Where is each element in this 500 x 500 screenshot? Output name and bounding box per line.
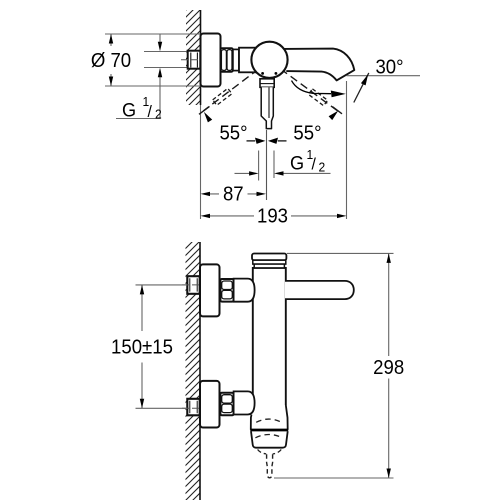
hidden outlet tube (dashed) (267, 454, 273, 478)
center line below lever (266, 130, 268, 200)
svg-text:G: G (122, 99, 136, 121)
valve body (top view) (239, 48, 257, 73)
knob dots (261, 72, 264, 75)
G1/2 extension lines (below lever) (259, 151, 274, 181)
union nut (top view) (221, 48, 233, 72)
svg-text:2: 2 (155, 107, 162, 121)
dimension line G1/2 (pipe width, top left) (116, 34, 161, 119)
spout (top view) (284, 49, 354, 81)
left 55 end segment (199, 106, 210, 114)
svg-text:55°: 55° (293, 123, 321, 145)
faucet body (front view) (253, 268, 286, 405)
arrow left to right ext (274, 171, 284, 175)
svg-text:87: 87 (223, 184, 244, 206)
top G1/2 nipple (front view) (187, 276, 199, 294)
top union nut (front view) (220, 279, 233, 302)
30 deg horizontal reference line (347, 75, 421, 77)
cap collar band (253, 260, 286, 264)
wall hatch (front view) (186, 242, 201, 500)
dimension 150±15 (111, 285, 187, 408)
lever handle (front view) (285, 281, 354, 299)
dimension 298 (274, 253, 404, 478)
ring between nut and body (top view) (233, 49, 239, 70)
wall face line (front view) (199, 242, 201, 500)
aerator flare (251, 405, 288, 430)
left 55 arrowhead (204, 112, 212, 123)
arrow up (Ø70) (109, 34, 113, 44)
hidden aerator top (dashed arc) (256, 419, 281, 422)
supply pipe extension lines (left of nipple) (144, 52, 188, 68)
converging arrows at lever axis (247, 138, 287, 144)
right 55 end segment (333, 107, 343, 114)
collar neck (inset) (254, 264, 284, 268)
spout tip extension line (193 / 30 deg) (346, 81, 348, 219)
arrow up to pipe bottom (158, 68, 162, 78)
aerator cup (251, 431, 288, 448)
wall hatch (top view) (186, 10, 201, 105)
arrow down (Ø70) (109, 77, 113, 87)
nipple axis dashes (181, 59, 204, 61)
top cap (front view) (252, 254, 286, 261)
label G 1/2 (center) (290, 148, 325, 175)
30 deg slanted line (354, 73, 369, 103)
svg-text:G: G (290, 152, 304, 174)
right 55 arrowhead (329, 111, 339, 121)
bottom union nut (front view) (220, 393, 233, 416)
bottom S-union cone (front view) (234, 391, 255, 414)
hidden screen (dashed arc) (255, 435, 282, 438)
wall face line (top view) (200, 10, 202, 105)
right ghost lever (dashed) (308, 89, 327, 106)
spout flow arc arrow (292, 81, 332, 94)
left 55-degree dashed swing line (behind knob) (204, 62, 269, 111)
top S-union cone (front view) (234, 279, 255, 302)
bottom nipple axis dashes (182, 407, 205, 409)
escutcheon extension lines (Ø70) (105, 34, 201, 86)
wall extension line down to 193 dim (200, 105, 202, 219)
label G 1/2 (upper left) (122, 95, 162, 122)
30 deg arrowhead (361, 74, 368, 85)
svg-text:55°: 55° (219, 123, 247, 145)
svg-text:/: / (148, 103, 153, 122)
bottom escutcheon (front view) (200, 381, 220, 428)
svg-text:298: 298 (373, 357, 404, 379)
dimension line Ø70 (110, 34, 112, 86)
svg-text:Ø 70: Ø 70 (91, 50, 131, 72)
top escutcheon (front view) (200, 264, 220, 316)
knob circle (top view) (251, 42, 287, 78)
dimension 193 (201, 206, 347, 228)
G1/2 dimension line (center) (235, 172, 331, 174)
svg-text:193: 193 (257, 206, 288, 228)
svg-text:/: / (312, 155, 317, 174)
bottom G1/2 nipple (front view) (187, 399, 199, 416)
svg-text:150±15: 150±15 (111, 337, 173, 359)
right 55-degree dashed swing line (behind knob) (271, 62, 338, 112)
aerator rim (bold) (250, 429, 288, 432)
escutcheon (top view) (201, 34, 221, 87)
arrow down to pipe top (158, 42, 162, 52)
lever (top view, pointing down) (260, 79, 274, 129)
left ghost lever (dashed) (213, 88, 232, 105)
hidden funnel to outlet (dashed) (258, 450, 267, 454)
G1/2 threaded nipple (top view, in wall) (188, 51, 201, 69)
svg-text:2: 2 (319, 160, 326, 174)
arrow right to left ext (249, 171, 259, 175)
dimension 87 (201, 184, 267, 206)
top nipple axis dashes (182, 284, 205, 286)
svg-text:30°: 30° (375, 57, 403, 79)
